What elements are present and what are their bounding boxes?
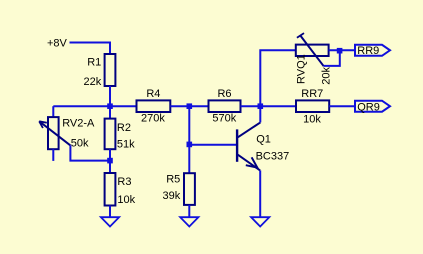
svg-text:R5: R5 bbox=[166, 173, 180, 185]
svg-text:+8V: +8V bbox=[47, 38, 68, 50]
wire RV2-A bottom stub bbox=[52, 149, 54, 161]
resistor RR7 bbox=[296, 88, 329, 125]
potentiometer RV2-A bbox=[39, 117, 95, 150]
wire RR7 to QR9 tag bbox=[329, 105, 355, 107]
node junction J4 bbox=[337, 48, 343, 54]
wire main bus left bbox=[53, 105, 136, 107]
svg-text:20k: 20k bbox=[321, 66, 333, 84]
ground under R5 bbox=[180, 217, 198, 226]
svg-text:50k: 50k bbox=[71, 138, 89, 150]
svg-text:RR9: RR9 bbox=[357, 45, 379, 57]
wire R2 top bbox=[109, 106, 111, 118]
resistor R2 bbox=[105, 119, 136, 151]
wire R1 bottom to node bbox=[109, 86, 111, 106]
svg-text:10k: 10k bbox=[117, 194, 135, 206]
svg-text:R4: R4 bbox=[146, 88, 160, 100]
port tag RR9 bbox=[355, 45, 390, 57]
wire emitter down bbox=[259, 170, 261, 217]
wire R3 bottom bbox=[109, 206, 111, 218]
svg-text:270k: 270k bbox=[141, 113, 165, 125]
wire R3 top bbox=[109, 161, 111, 173]
wire RV2-A wiper to node J5 bbox=[70, 145, 110, 160]
ground under R3 bbox=[101, 217, 119, 226]
svg-text:R3: R3 bbox=[117, 176, 131, 188]
node junction J5 bbox=[107, 158, 113, 164]
wire +8V to R1 bbox=[70, 43, 111, 55]
transistor Q1 bbox=[237, 122, 289, 170]
svg-text:39k: 39k bbox=[163, 190, 181, 202]
wire RVQ1 right to RR9 tag bbox=[329, 49, 355, 51]
svg-text:R1: R1 bbox=[87, 56, 101, 68]
node junction J1 bbox=[107, 103, 113, 109]
node junction J6 bbox=[187, 142, 193, 148]
resistor R4 bbox=[137, 88, 171, 125]
wire R5 bottom bbox=[188, 205, 190, 217]
svg-text:R6: R6 bbox=[217, 88, 231, 100]
svg-text:R2: R2 bbox=[117, 122, 131, 134]
port tag QR9 bbox=[355, 101, 390, 114]
svg-text:570k: 570k bbox=[212, 112, 236, 124]
svg-text:RR7: RR7 bbox=[301, 88, 323, 100]
wire base Q1 bbox=[189, 144, 237, 146]
svg-text:51k: 51k bbox=[117, 139, 135, 151]
svg-text:RVQ1: RVQ1 bbox=[295, 54, 307, 84]
svg-text:22k: 22k bbox=[84, 76, 102, 88]
wire RVQ1 wiper to node J4 bbox=[324, 50, 340, 66]
resistor R3 bbox=[105, 173, 136, 206]
power net +8V bbox=[47, 38, 68, 50]
wire RV2-A top bbox=[52, 106, 54, 117]
wire R6 to RR7 bbox=[241, 105, 297, 107]
svg-text:BC337: BC337 bbox=[256, 150, 290, 162]
svg-text:RV2-A: RV2-A bbox=[62, 117, 95, 129]
wire R4 to R6 bbox=[170, 105, 208, 107]
svg-text:10k: 10k bbox=[303, 113, 321, 125]
resistor R6 bbox=[209, 88, 241, 124]
resistor R5 bbox=[163, 173, 195, 205]
resistor R1 bbox=[84, 54, 116, 88]
wire J3 up to RVQ1 bbox=[260, 50, 296, 106]
wire R2 bottom bbox=[109, 149, 111, 160]
wire collector to J3 bbox=[259, 106, 261, 122]
wire J2 down to R5 bbox=[188, 106, 190, 173]
node junction J3 bbox=[258, 103, 264, 109]
node junction J2 bbox=[187, 103, 193, 109]
ground under Q1 emitter bbox=[251, 217, 269, 226]
potentiometer RVQ1 bbox=[295, 33, 332, 85]
svg-text:Q1: Q1 bbox=[256, 133, 271, 145]
svg-text:QR9: QR9 bbox=[357, 102, 380, 114]
